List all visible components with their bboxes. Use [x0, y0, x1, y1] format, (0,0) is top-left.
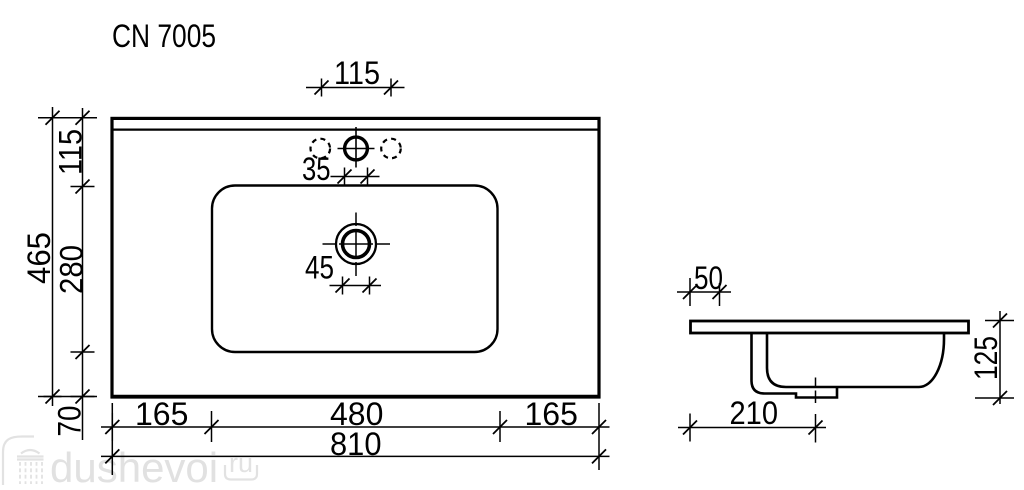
svg-text:210: 210 — [730, 395, 779, 431]
dim line 165/480/165 — [101, 413, 610, 441]
dim chain 115/280/70 line — [71, 108, 95, 440]
svg-text:70: 70 — [52, 406, 88, 437]
dim 465 (total depth) line — [44, 107, 62, 406]
dim 210 (side) — [678, 414, 826, 442]
svg-text:dushevoi: dushevoi — [50, 444, 218, 485]
side outer wall profile — [752, 334, 838, 398]
faucet hole crosshair — [338, 127, 375, 168]
svg-text:115: 115 — [334, 55, 380, 91]
svg-text:50: 50 — [694, 260, 723, 296]
dim 35 (faucet hole diameter) — [331, 168, 380, 186]
countertop bottom edge (thick) — [111, 395, 601, 399]
watermark logo icon — [3, 437, 44, 487]
svg-text:35: 35 — [302, 151, 331, 187]
dim line 810 — [101, 449, 610, 463]
svg-text:CN 7005: CN 7005 — [112, 18, 216, 54]
svg-text:280: 280 — [54, 245, 90, 294]
drain hole outer — [336, 224, 376, 264]
countertop outline (top view) — [112, 118, 599, 396]
drain hole inner — [343, 231, 370, 258]
svg-text:45: 45 — [305, 250, 334, 286]
svg-text:125: 125 — [968, 336, 1004, 380]
svg-text:ru: ru — [229, 448, 253, 478]
svg-text:165: 165 — [135, 396, 188, 432]
svg-text:165: 165 — [525, 396, 578, 432]
dim 125 (side height) — [975, 311, 1014, 405]
bottom extension lines — [112, 403, 599, 475]
watermark ru badge — [225, 448, 257, 480]
side inner wall profile — [767, 334, 944, 388]
optional hole right (dashed) — [381, 139, 401, 159]
drain centerlines — [323, 213, 391, 277]
left extension lines — [38, 118, 97, 397]
countertop inner top edge line — [114, 129, 598, 131]
svg-text:810: 810 — [330, 426, 382, 462]
basin rounded rectangle — [212, 186, 498, 353]
optional hole left (dashed) — [311, 139, 331, 159]
dim 115 (tap holes spacing) — [306, 79, 405, 97]
side slab (countertop section) — [691, 321, 969, 333]
dim 45 (drain hole diameter) — [330, 277, 382, 295]
dim 50 (side) — [677, 278, 731, 306]
svg-text:115: 115 — [53, 129, 89, 175]
svg-text:465: 465 — [21, 232, 57, 284]
faucet hole — [345, 137, 368, 160]
drain boss centerline — [815, 378, 817, 443]
